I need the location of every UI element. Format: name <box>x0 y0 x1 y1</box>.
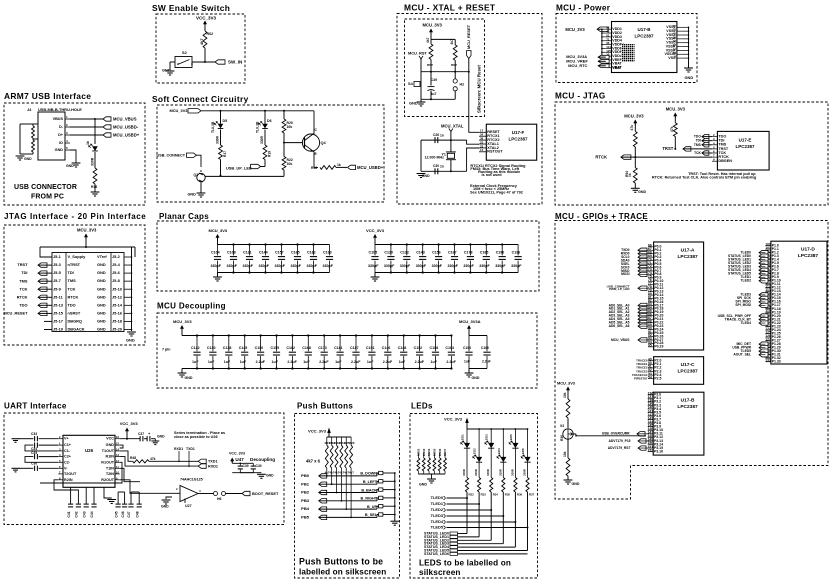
svg-text:VSS: VSS <box>668 56 676 60</box>
op-amp U26 MAX3232 <box>63 435 115 487</box>
svg-text:R36: R36 <box>517 493 523 497</box>
ground <box>178 373 187 377</box>
U17-D tag group 3 <box>759 314 768 318</box>
wire <box>634 124 636 132</box>
svg-text:TLED0: TLED0 <box>431 495 443 500</box>
wire gnd bus <box>394 473 396 521</box>
svg-text:C40: C40 <box>256 464 262 468</box>
svg-text:U17-A: U17-A <box>681 248 695 254</box>
svg-text:GND: GND <box>97 310 106 315</box>
op-amp U17-F <box>486 124 536 160</box>
svg-text:C120: C120 <box>384 250 393 254</box>
svg-text:14: 14 <box>480 148 484 152</box>
capacitor C150 2.2uF <box>260 336 262 352</box>
svg-text:330R: 330R <box>260 135 264 144</box>
svg-text:MCU_3V3: MCU_3V3 <box>565 27 585 32</box>
wire <box>283 133 285 157</box>
svg-text:GND: GND <box>472 376 480 380</box>
svg-text:J5-7: J5-7 <box>53 278 61 283</box>
resistor R16 <box>93 168 97 184</box>
bottom capacitor C41 <box>70 487 72 503</box>
svg-text:1uF: 1uF <box>303 360 310 364</box>
svg-text:J5-5: J5-5 <box>53 270 62 275</box>
svg-text:RTCK: RTCK <box>68 294 79 299</box>
resistor R36 <box>514 478 517 493</box>
svg-text:V_Supply: V_Supply <box>68 254 87 259</box>
resistor R62 4k7 <box>203 31 207 48</box>
svg-text:C193: C193 <box>323 250 332 254</box>
wire GND bus <box>688 27 690 68</box>
wire <box>447 509 492 511</box>
svg-text:GND: GND <box>266 474 274 478</box>
svg-text:MCU_USBD+: MCU_USBD+ <box>357 165 384 170</box>
ground shield <box>16 156 25 160</box>
svg-text:RTCK: RTCK <box>17 294 28 299</box>
svg-text:C33: C33 <box>31 432 37 436</box>
svg-text:R35: R35 <box>505 493 511 497</box>
svg-text:SW Enable Switch: SW Enable Switch <box>152 3 230 13</box>
wire <box>502 462 504 478</box>
svg-text:RST: RST <box>451 63 457 67</box>
svg-text:U27: U27 <box>185 504 192 508</box>
wire to XTAL pins <box>467 140 479 144</box>
svg-text:TCK: TCK <box>68 286 76 291</box>
svg-text:330pF: 330pF <box>432 264 443 268</box>
capacitor C37 <box>140 436 143 441</box>
svg-text:C121: C121 <box>243 250 252 254</box>
svg-text:C144: C144 <box>259 250 268 254</box>
wire R2OUT to buffer <box>120 480 180 494</box>
svg-text:VBAT: VBAT <box>612 66 621 70</box>
U17-D tag group 4 <box>759 342 768 346</box>
svg-text:GND: GND <box>638 190 646 194</box>
wire <box>383 514 395 516</box>
resistor R26 4k7 <box>350 437 352 445</box>
svg-text:330pF: 330pF <box>227 264 238 268</box>
svg-text:GND: GND <box>162 68 171 73</box>
wire <box>466 421 468 430</box>
wire <box>217 273 219 278</box>
svg-text:J5-19: J5-19 <box>53 327 64 332</box>
wire <box>383 505 395 507</box>
svg-text:330pF: 330pF <box>368 264 379 268</box>
svg-text:S2: S2 <box>182 50 188 55</box>
svg-text:GND: GND <box>106 443 115 447</box>
silkscreen box MCU Reset <box>405 19 485 117</box>
svg-text:Silkscreen: MCU Reset: Silkscreen: MCU Reset <box>477 65 482 113</box>
wire <box>597 28 602 30</box>
resistor R22 10k <box>282 157 286 171</box>
wire <box>319 516 377 518</box>
svg-text:MCU - GPIOs + TRACE: MCU - GPIOs + TRACE <box>555 212 648 221</box>
svg-text:1uF: 1uF <box>272 360 279 364</box>
net label MCU_USBD+ <box>103 133 111 137</box>
svg-text:R54: R54 <box>625 171 629 177</box>
svg-text:R16: R16 <box>91 185 97 189</box>
svg-text:ADV7179_P15: ADV7179_P15 <box>609 439 631 443</box>
svg-text:B_BACK: B_BACK <box>361 488 377 492</box>
svg-text:10: 10 <box>116 470 119 474</box>
svg-text:PIPESTAT: PIPESTAT <box>634 377 648 381</box>
capacitor C36 <box>35 466 38 471</box>
svg-text:330R: 330R <box>462 469 466 476</box>
svg-text:14: 14 <box>116 447 119 451</box>
svg-text:C163: C163 <box>445 346 454 350</box>
svg-text:330pF: 330pF <box>275 264 286 268</box>
svg-text:Soft Connect Circuitry: Soft Connect Circuitry <box>152 94 249 104</box>
capacitor C181 1uF <box>339 336 341 352</box>
svg-text:PB0: PB0 <box>301 473 310 478</box>
ground <box>12 439 20 443</box>
svg-text:2.2uF: 2.2uF <box>446 360 456 364</box>
svg-text:C45: C45 <box>114 511 118 517</box>
jumper H2 <box>453 79 457 83</box>
svg-text:C39: C39 <box>243 464 249 468</box>
svg-text:C36: C36 <box>31 462 37 466</box>
svg-text:TLED3: TLED3 <box>431 513 444 518</box>
svg-text:PB2: PB2 <box>301 490 310 495</box>
wire <box>447 527 528 529</box>
wire <box>374 273 376 278</box>
svg-text:RST: RST <box>427 63 433 67</box>
svg-text:C191: C191 <box>366 346 375 350</box>
svg-text:labelled on silkscreen: labelled on silkscreen <box>299 568 386 577</box>
svg-text:C152: C152 <box>414 346 423 350</box>
svg-text:R1OUT: R1OUT <box>101 460 114 464</box>
ground <box>390 521 399 525</box>
capacitor C162 2.2uF <box>291 336 293 352</box>
svg-text:TLED1: TLED1 <box>431 501 444 506</box>
svg-text:330pF: 330pF <box>384 264 395 268</box>
svg-text:GND: GND <box>419 483 427 487</box>
resistor R37 <box>526 478 529 493</box>
capacitor C148 1uF <box>403 336 405 352</box>
svg-text:C47: C47 <box>127 511 131 517</box>
svg-text:MCU_3V3: MCU_3V3 <box>666 107 686 112</box>
svg-text:LPC2387: LPC2387 <box>735 144 755 149</box>
svg-text:330pF: 330pF <box>291 264 302 268</box>
capacitor C145 1uF <box>244 336 246 352</box>
wire <box>634 183 636 188</box>
svg-text:GND: GND <box>409 101 418 106</box>
wire <box>204 24 206 31</box>
bottom capacitor C43 <box>85 487 87 503</box>
svg-text:RTCK: Returned Test CLK. Also: RTCK: Returned Test CLK. Also controls E… <box>652 176 757 180</box>
svg-text:USB_OVERCURR: USB_OVERCURR <box>602 432 630 436</box>
transistor Q4 <box>302 134 319 151</box>
svg-text:330pF: 330pF <box>211 264 222 268</box>
svg-text:MCU_3V3: MCU_3V3 <box>557 380 576 385</box>
svg-text:TDI: TDI <box>21 270 27 275</box>
svg-text:C49: C49 <box>431 78 437 82</box>
capacitor C196 330pF <box>517 245 519 256</box>
svg-text:ARM7 USB Interface: ARM7 USB Interface <box>4 91 91 101</box>
wire <box>420 140 422 171</box>
wire <box>430 33 432 40</box>
svg-text:R26: R26 <box>349 441 355 445</box>
svg-text:P0.29: P0.29 <box>654 345 663 349</box>
wire <box>232 472 253 474</box>
svg-text:133: 133 <box>765 358 771 362</box>
svg-text:2.2uF: 2.2uF <box>319 360 329 364</box>
svg-text:C166: C166 <box>481 346 489 350</box>
op-amp U17-B power <box>612 22 677 73</box>
U17-A tag group 2 <box>638 303 647 307</box>
net label MCU_USBD+ <box>348 165 356 169</box>
svg-text:R18: R18 <box>311 166 317 170</box>
wire <box>204 48 206 62</box>
wire <box>319 492 377 494</box>
svg-text:330pF: 330pF <box>323 264 334 268</box>
svg-text:C145: C145 <box>239 346 248 350</box>
svg-text:MCU_USBD-: MCU_USBD- <box>113 125 139 130</box>
svg-text:C155: C155 <box>271 346 280 350</box>
svg-text:C1-: C1- <box>64 449 71 453</box>
svg-text:MCU_3V3: MCU_3V3 <box>170 108 189 113</box>
svg-text:ADV7179_RST: ADV7179_RST <box>608 446 631 450</box>
svg-text:PB5: PB5 <box>301 515 310 520</box>
svg-text:RXD1: RXD1 <box>174 447 183 451</box>
svg-text:TCK: TCK <box>694 151 701 155</box>
svg-text:GND: GND <box>66 164 74 168</box>
svg-text:USB-MB-B-THRU-HOLE: USB-MB-B-THRU-HOLE <box>38 107 82 112</box>
svg-text:330pF: 330pF <box>495 264 506 268</box>
svg-text:R30: R30 <box>560 435 564 441</box>
capacitor C146 2.2uF <box>387 336 389 352</box>
svg-text:330pF: 330pF <box>243 264 254 268</box>
wire <box>319 500 377 502</box>
svg-text:R17: R17 <box>223 151 227 157</box>
wire bus bottom <box>218 272 330 274</box>
wire bottom bus <box>204 175 284 177</box>
wire <box>447 503 480 505</box>
svg-text:VCC_3V3: VCC_3V3 <box>366 228 385 233</box>
svg-text:MCU Decoupling: MCU Decoupling <box>157 302 226 311</box>
capacitor C156 330pF <box>438 245 440 256</box>
capacitor C121 330pF <box>249 245 251 256</box>
wire <box>450 132 452 141</box>
wire <box>468 329 470 336</box>
svg-text:GND: GND <box>161 505 169 509</box>
capacitor C132 330pF <box>406 245 408 256</box>
svg-text:95: 95 <box>648 344 652 348</box>
svg-text:USB_UP_LED: USB_UP_LED <box>226 166 252 171</box>
svg-text:C143: C143 <box>416 250 425 254</box>
wire <box>328 430 330 437</box>
svg-text:VCC_3V3: VCC_3V3 <box>308 429 327 434</box>
svg-text:silkscreen: silkscreen <box>419 568 461 577</box>
svg-text:2.2uF: 2.2uF <box>351 360 361 364</box>
svg-text:C165: C165 <box>291 250 300 254</box>
svg-text:MCU_3V3: MCU_3V3 <box>423 23 443 28</box>
svg-text:C178: C178 <box>464 250 473 254</box>
U17-C pins <box>648 360 654 362</box>
svg-text:B_DOWN: B_DOWN <box>360 472 377 476</box>
resistor R23 4k7 <box>336 437 338 445</box>
wire <box>200 182 202 193</box>
svg-text:2.2uF: 2.2uF <box>287 360 297 364</box>
svg-text:330pF: 330pF <box>448 264 459 268</box>
capacitor C158 1uF <box>435 336 437 352</box>
capacitor C191 1uF <box>371 336 373 352</box>
svg-text:TDO: TDO <box>68 302 76 307</box>
U17-A pins <box>648 246 654 248</box>
svg-text:C2+: C2+ <box>64 455 72 459</box>
svg-text:4k7: 4k7 <box>426 37 430 43</box>
ground <box>564 480 573 484</box>
bottom capacitor C48 <box>138 492 140 504</box>
svg-text:C138: C138 <box>223 346 232 350</box>
capacitor C144 330pF <box>265 245 267 256</box>
svg-text:U17-E: U17-E <box>739 138 752 143</box>
svg-text:LPC2387: LPC2387 <box>798 253 819 259</box>
trimpot R30 <box>563 429 573 439</box>
svg-text:C130: C130 <box>207 346 216 350</box>
wire led bus <box>467 428 528 430</box>
wire <box>319 508 377 510</box>
right gnd bus <box>124 256 132 258</box>
wire <box>231 462 233 464</box>
svg-text:GND: GND <box>157 435 165 439</box>
wire res bus <box>327 436 351 438</box>
svg-text:H2: H2 <box>460 83 465 87</box>
svg-text:U17-B: U17-B <box>637 27 651 32</box>
svg-text:C35: C35 <box>31 451 37 455</box>
resistor R32 <box>465 478 468 493</box>
bottom capacitor C45 <box>117 492 119 504</box>
svg-text:SPI_MOSI: SPI_MOSI <box>735 303 751 307</box>
ground <box>213 277 222 281</box>
svg-text:C46: C46 <box>121 511 125 517</box>
net label USB_UP_LED <box>261 166 265 168</box>
svg-text:TRST: TRST <box>17 262 28 267</box>
U17-B left pins <box>606 28 612 30</box>
jumper H6 <box>198 493 213 495</box>
svg-text:VTref: VTref <box>97 254 107 259</box>
svg-text:MCU_VBUS: MCU_VBUS <box>113 117 137 122</box>
svg-text:TXD1: TXD1 <box>208 460 218 464</box>
wire RTCK <box>621 156 712 158</box>
svg-text:C150: C150 <box>255 346 264 350</box>
capacitor C165 330pF <box>297 245 299 256</box>
svg-text:See UM10211, Page 47 of 792: See UM10211, Page 47 of 792 <box>470 190 523 194</box>
wire USBD- <box>70 126 103 128</box>
svg-text:MCU - JTAG: MCU - JTAG <box>555 92 606 101</box>
capacitor C35 <box>35 454 38 459</box>
ground <box>427 479 436 483</box>
svg-text:Push Buttons: Push Buttons <box>297 402 353 411</box>
svg-text:TXD1: TXD1 <box>186 447 195 451</box>
svg-text:TLED2: TLED2 <box>431 507 444 512</box>
capacitor C26 <box>435 137 438 143</box>
svg-text:DBGACK: DBGACK <box>68 327 85 332</box>
svg-text:P1.33: P1.33 <box>772 360 781 364</box>
wire VBUS <box>70 118 103 120</box>
svg-text:STATUS_LED6: STATUS_LED6 <box>424 552 449 556</box>
svg-text:PB3: PB3 <box>301 498 310 503</box>
svg-text:C44: C44 <box>90 511 94 517</box>
wire <box>181 329 183 336</box>
wire <box>490 448 492 478</box>
svg-text:J5-20: J5-20 <box>112 327 122 332</box>
svg-text:TLX,3B: TLX,3B <box>256 121 260 133</box>
svg-text:T2IN: T2IN <box>106 472 114 476</box>
svg-text:J5-18: J5-18 <box>112 318 123 323</box>
wire <box>319 483 377 485</box>
capacitor C173 2.2uF <box>323 336 325 352</box>
svg-text:C167: C167 <box>448 250 457 254</box>
wire <box>126 432 128 439</box>
svg-text:P3.16: P3.16 <box>654 449 663 453</box>
resistor R54 1k <box>634 157 636 168</box>
capacitor C138 1uF <box>228 336 230 352</box>
svg-text:C146: C146 <box>382 346 391 350</box>
svg-text:GND: GND <box>97 294 106 299</box>
svg-text:J5-6: J5-6 <box>112 270 121 275</box>
svg-text:330R: 330R <box>474 469 478 476</box>
svg-text:TMS: TMS <box>19 278 28 283</box>
svg-text:12: 12 <box>116 459 119 463</box>
svg-text:4k7: 4k7 <box>199 39 204 46</box>
ground <box>631 188 640 192</box>
bottom capacitor C42 <box>54 480 78 504</box>
svg-text:330R: 330R <box>486 469 490 476</box>
pin wires <box>65 118 70 120</box>
svg-text:330pF: 330pF <box>307 264 318 268</box>
svg-text:7 pin: 7 pin <box>162 348 170 352</box>
svg-text:C104: C104 <box>211 250 220 254</box>
wire rs bus <box>418 473 445 475</box>
resistor R35 <box>502 478 505 493</box>
LED LED3 <box>490 428 492 430</box>
svg-text:330pF: 330pF <box>400 264 411 268</box>
svg-text:TLED4: TLED4 <box>431 519 444 524</box>
wire <box>420 59 422 72</box>
net label TXD1 <box>198 459 206 463</box>
svg-text:UART Interface: UART Interface <box>4 402 67 411</box>
capacitor C143 330pF <box>422 245 424 256</box>
capacitor C105 330pF <box>374 245 376 256</box>
capacitor C163 2.2uF <box>450 336 452 352</box>
capacitor C104 330pF <box>217 245 219 256</box>
svg-text:2.2uF: 2.2uF <box>482 360 491 364</box>
svg-text:J5-11: J5-11 <box>53 294 64 299</box>
wire <box>468 369 470 374</box>
op-amp U17-C LPC2387 <box>654 357 704 385</box>
resistor R34 <box>490 478 493 493</box>
svg-text:VCC_3V3: VCC_3V3 <box>196 16 217 21</box>
svg-text:C187: C187 <box>350 346 359 350</box>
svg-text:C148: C148 <box>398 346 407 350</box>
svg-text:C181: C181 <box>334 346 343 350</box>
status led wires <box>458 533 468 535</box>
wire <box>447 521 516 523</box>
svg-text:1uF: 1uF <box>464 360 470 364</box>
wire <box>383 489 395 491</box>
svg-text:330pF: 330pF <box>511 264 522 268</box>
LED LED5 <box>515 428 517 430</box>
capacitor C187 2.2uF <box>355 336 357 352</box>
svg-text:R2IN: R2IN <box>64 478 73 482</box>
ground <box>371 277 380 281</box>
svg-text:47k: 47k <box>150 457 156 461</box>
svg-text:GND: GND <box>572 482 580 486</box>
wire <box>336 166 347 168</box>
svg-text:C105: C105 <box>369 250 378 254</box>
svg-text:R19: R19 <box>268 151 272 157</box>
op-amp U17-D LPC2387 <box>771 241 827 364</box>
net label MCU_USBD- <box>103 125 111 129</box>
